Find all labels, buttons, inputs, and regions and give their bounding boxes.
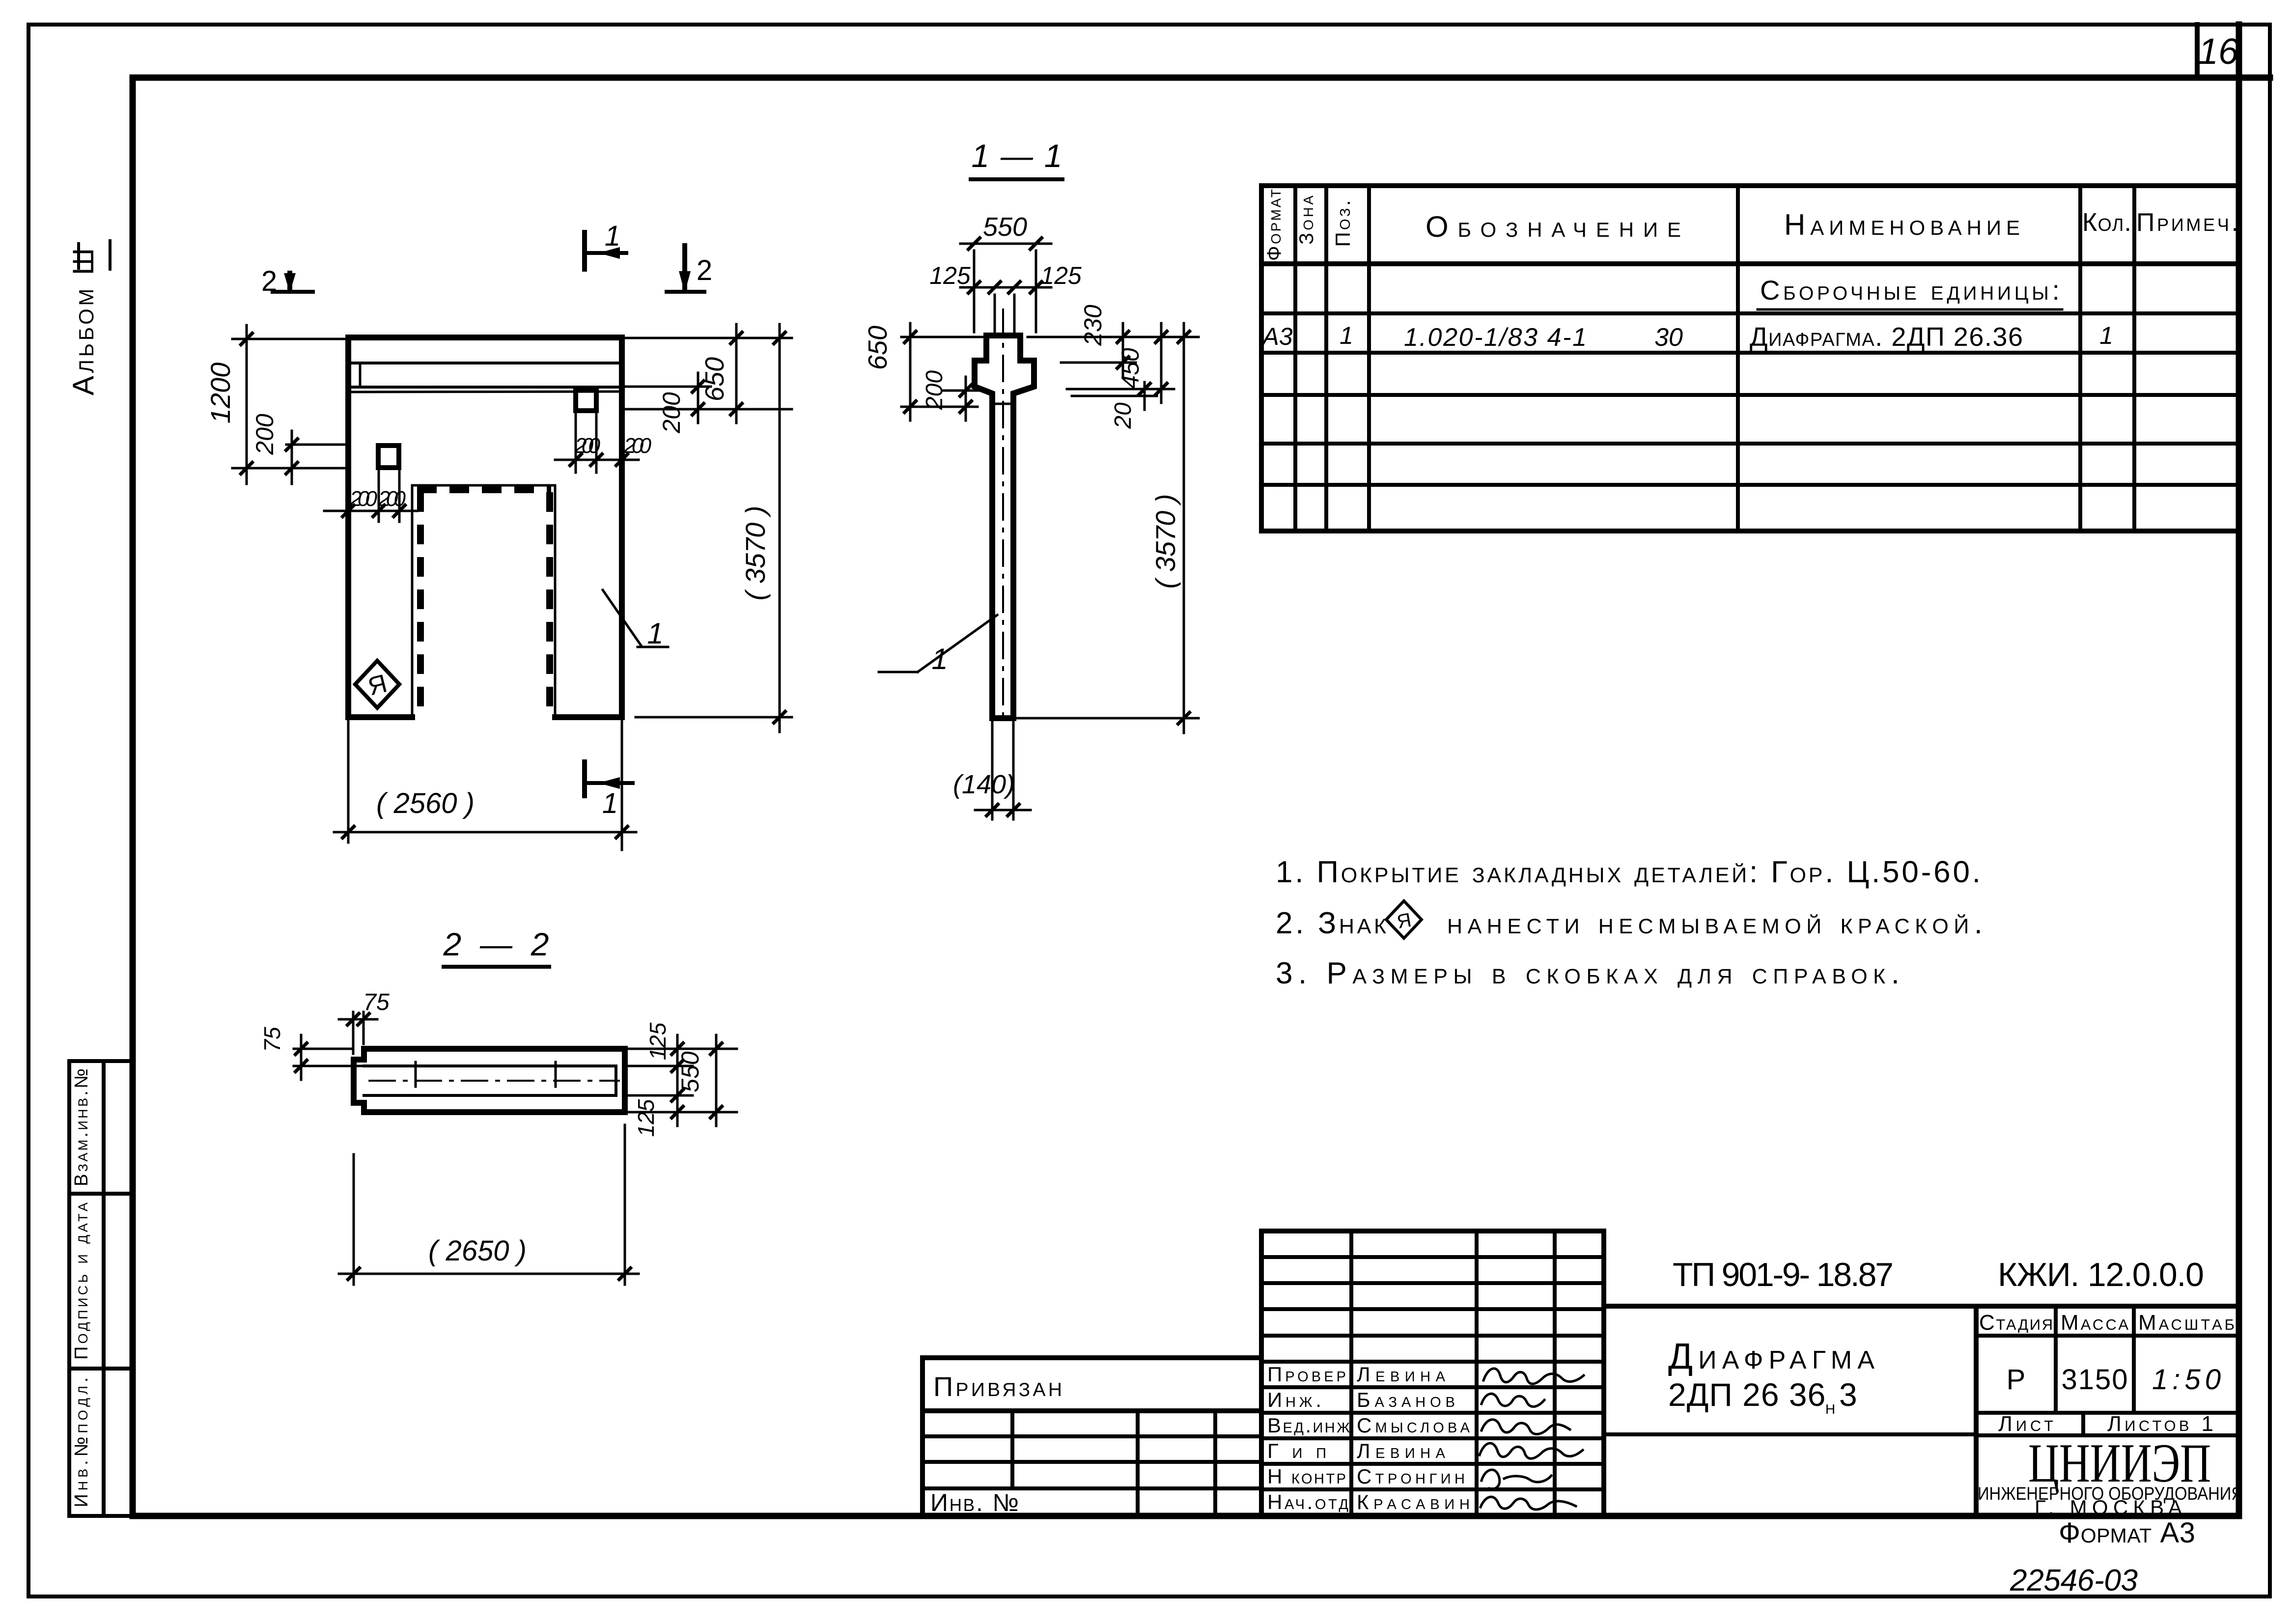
quality mark diamond — [355, 661, 399, 708]
svg-text:Сборочные единицы:: Сборочные единицы: — [1760, 275, 2060, 306]
svg-text:75: 75 — [259, 1027, 285, 1052]
spec table grid — [1261, 186, 2239, 531]
svg-text:Инж.: Инж. — [1267, 1388, 1321, 1411]
svg-text:Я: Я — [1395, 909, 1413, 933]
svg-text:А3: А3 — [1261, 323, 1292, 350]
svg-text:650: 650 — [700, 357, 729, 401]
signature squiggle Базанов — [1481, 1394, 1544, 1406]
section mark 1 bottom — [585, 762, 633, 819]
dimension 200 section — [922, 370, 982, 420]
svg-text:Наименование: Наименование — [1784, 208, 2020, 241]
dimension 450 — [1067, 323, 1174, 403]
svg-text:Стронгин: Стронгин — [1357, 1465, 1465, 1488]
svg-text:125: 125 — [1040, 262, 1082, 289]
dimension 550 — [960, 212, 1051, 332]
svg-text:Диафрагма: Диафрагма — [1668, 1336, 1874, 1376]
svg-text:200: 200 — [922, 370, 948, 410]
svg-text:2: 2 — [261, 265, 277, 297]
section 2-2 title — [443, 926, 550, 967]
svg-text:Красавин: Красавин — [1357, 1490, 1470, 1513]
dimension 200 200 right plate — [555, 414, 652, 473]
svg-text:Смыслова: Смыслова — [1357, 1414, 1470, 1437]
dimension 230 — [1028, 305, 1199, 376]
dimension (140) — [953, 721, 1031, 819]
svg-text:( 3570 ): ( 3570 ) — [1150, 494, 1181, 589]
section mark 2 right — [667, 246, 712, 293]
svg-text:Г и п: Г и п — [1267, 1439, 1326, 1462]
signature row names — [1357, 1363, 1470, 1513]
svg-text:( 2560 ): ( 2560 ) — [376, 787, 475, 819]
dimension 550 right — [676, 1035, 723, 1126]
svg-text:Листов 1: Листов 1 — [2107, 1412, 2213, 1436]
dimension 650 right — [622, 324, 792, 423]
svg-text:1 — 1: 1 — 1 — [972, 138, 1062, 174]
svg-text:125: 125 — [645, 1022, 671, 1060]
section 1-1 title — [971, 138, 1062, 179]
opening contour — [412, 485, 555, 717]
section mark 1 top — [585, 220, 626, 269]
svg-text:1. Покрытие закладных деталей:: 1. Покрытие закладных деталей: Гор. Ц.50… — [1276, 855, 1981, 889]
svg-text:Лист: Лист — [1998, 1412, 2053, 1436]
embedded plate right — [576, 388, 596, 411]
title block left sub-block grid — [922, 1358, 1261, 1516]
frame top right extension — [2239, 75, 2270, 81]
svg-text:1: 1 — [605, 220, 620, 252]
sheet number box divider — [2195, 25, 2200, 78]
svg-text:ТП 901-9- 18.87: ТП 901-9- 18.87 — [1673, 1256, 1894, 1293]
sheet number box right divider — [2236, 25, 2242, 78]
svg-text:Базанов: Базанов — [1357, 1388, 1455, 1411]
svg-text:нанести несмываемой краской.: нанести несмываемой краской. — [1447, 906, 1983, 940]
dimension (2560) bottom — [334, 720, 636, 850]
svg-text:3: 3 — [1839, 1376, 1857, 1413]
album numeral overline — [77, 244, 80, 268]
svg-text:( 3570 ): ( 3570 ) — [740, 506, 771, 601]
svg-text:Р: Р — [2007, 1364, 2026, 1396]
signature squiggle Стронгин — [1481, 1470, 1551, 1489]
dimension 200 right upper — [622, 373, 711, 434]
svg-text:Провер: Провер — [1267, 1363, 1346, 1386]
dimension 200 200 lower-left plate — [324, 471, 418, 522]
svg-text:н: н — [1825, 1397, 1835, 1418]
svg-text:16: 16 — [2198, 31, 2239, 72]
title block signature table grid — [1261, 1231, 1604, 1516]
dimension 125 right — [1003, 262, 1082, 332]
svg-text:1200: 1200 — [205, 363, 236, 424]
svg-text:230: 230 — [1079, 305, 1107, 346]
section mark 2 left — [261, 265, 313, 297]
spec row designation 1.020-1/83 4-1 30 — [1404, 323, 1683, 352]
svg-text:2. Знак: 2. Знак — [1276, 906, 1386, 940]
svg-text:200: 200 — [574, 434, 601, 458]
signature squiggle Левина — [1483, 1369, 1584, 1384]
dimension 650 section — [863, 323, 986, 420]
svg-text:550: 550 — [983, 212, 1027, 242]
svg-text:1: 1 — [931, 643, 948, 675]
svg-text:125: 125 — [633, 1099, 659, 1137]
svg-text:1: 1 — [1340, 322, 1353, 349]
svg-text:Подпись и дата: Подпись и дата — [71, 1203, 92, 1360]
embedded plate left — [378, 446, 399, 468]
note 2 mark diamond — [1386, 901, 1422, 938]
svg-text:1: 1 — [602, 787, 618, 819]
svg-text:Инв. №: Инв. № — [930, 1489, 1019, 1516]
svg-text:Взам.инв.№: Взам.инв.№ — [71, 1068, 92, 1186]
leader 1 front view — [603, 590, 668, 650]
leader 1 section 1-1 — [879, 615, 997, 675]
svg-text:Масса: Масса — [2061, 1311, 2128, 1335]
svg-text:20: 20 — [1110, 402, 1136, 429]
svg-text:Кол.: Кол. — [2082, 208, 2131, 237]
svg-text:200: 200 — [658, 392, 685, 434]
svg-text:Обозначение: Обозначение — [1426, 210, 1681, 243]
svg-text:Н контр: Н контр — [1267, 1465, 1346, 1488]
signature squiggle Красавин — [1481, 1497, 1576, 1510]
title block right grid — [1604, 1306, 2239, 1516]
svg-text:3. Размеры в скобках для справ: 3. Размеры в скобках для справок. — [1276, 956, 1900, 990]
svg-text:22546-03: 22546-03 — [2010, 1564, 2138, 1597]
svg-text:Поз.: Поз. — [1331, 200, 1354, 247]
svg-text:2: 2 — [697, 254, 712, 286]
svg-text:КЖИ. 12.0.0.0: КЖИ. 12.0.0.0 — [1998, 1256, 2204, 1293]
signature squiggle Левина ГИП — [1480, 1443, 1583, 1458]
dimension 75 left — [259, 1027, 362, 1080]
album numeral underline — [109, 241, 112, 269]
svg-text:30: 30 — [1654, 323, 1683, 352]
svg-text:Примеч.: Примеч. — [2136, 208, 2238, 237]
dimension 125 bottom right — [628, 1082, 737, 1137]
dimension (2650) bottom — [339, 1125, 639, 1285]
svg-text:1.020-1/83 4-1: 1.020-1/83 4-1 — [1404, 323, 1587, 352]
opening hidden dashed contour — [417, 490, 551, 715]
svg-text:200: 200 — [378, 487, 406, 511]
svg-text:1: 1 — [2099, 322, 2113, 349]
section 2-2 inner right edge — [615, 1066, 617, 1095]
svg-text:650: 650 — [863, 326, 893, 370]
svg-text:Формат: Формат — [1263, 189, 1285, 261]
left margin stamp table — [69, 1061, 133, 1516]
svg-text:Инв.№подл.: Инв.№подл. — [71, 1377, 92, 1508]
signature squiggle Смыслова — [1481, 1420, 1570, 1434]
dimension (3570) right — [636, 324, 792, 732]
dimension 20 — [1072, 382, 1157, 429]
svg-text:2 — 2: 2 — 2 — [443, 926, 549, 962]
section 2-2 centerline — [368, 1080, 620, 1082]
signature row labels — [1267, 1363, 1350, 1513]
section 2-2 anchor tick right — [555, 1062, 557, 1087]
svg-text:200: 200 — [623, 434, 652, 458]
section 1-1 stem joint line — [992, 403, 1013, 405]
svg-text:3150: 3150 — [2062, 1364, 2128, 1396]
svg-text:( 2650 ): ( 2650 ) — [428, 1235, 527, 1267]
svg-text:Нач.отд: Нач.отд — [1267, 1490, 1348, 1513]
svg-text:1: 1 — [647, 617, 663, 650]
spec row Сборочные единицы — [1758, 275, 2062, 309]
svg-text:ИНЖЕНЕРНОГО ОБОРУДОВАНИЯ: ИНЖЕНЕРНОГО ОБОРУДОВАНИЯ — [1978, 1484, 2243, 1504]
svg-text:75: 75 — [363, 989, 390, 1015]
svg-text:Стадия: Стадия — [1979, 1311, 2053, 1335]
section 1-1 element outline — [975, 336, 1034, 718]
svg-text:Масштаб: Масштаб — [2138, 1311, 2235, 1335]
svg-text:450: 450 — [1117, 348, 1144, 389]
svg-text:Вед.инж: Вед.инж — [1267, 1414, 1350, 1437]
svg-text:Привязан: Привязан — [933, 1371, 1062, 1402]
svg-text:125: 125 — [929, 262, 971, 289]
section 2-2 anchor tick left — [415, 1062, 417, 1087]
svg-text:Альбом Ш: Альбом Ш — [67, 248, 100, 395]
section 1-1 centerline — [1002, 308, 1004, 722]
section 2-2 element outline — [354, 1049, 625, 1112]
svg-text:200: 200 — [349, 487, 378, 511]
dimension (3570) section — [1013, 323, 1199, 733]
panel outline — [348, 337, 622, 717]
svg-text:550: 550 — [676, 1051, 704, 1092]
dimension 1200 left — [205, 325, 348, 484]
panel top strip lines — [348, 363, 622, 392]
section 2-2 inner line lower — [364, 1094, 616, 1097]
section 2-2 inner line upper — [364, 1064, 616, 1067]
svg-text:200: 200 — [251, 414, 279, 455]
svg-text:1:50: 1:50 — [2152, 1364, 2221, 1396]
dimension 200 left — [251, 414, 346, 484]
dimension 125 left — [929, 262, 1007, 332]
svg-text:2ДП 26 36: 2ДП 26 36 — [1668, 1376, 1826, 1413]
svg-text:(140): (140) — [953, 770, 1015, 799]
svg-text:Зона: Зона — [1296, 196, 1317, 245]
dimension 125 top right — [628, 1022, 737, 1080]
svg-text:Формат А3: Формат А3 — [2059, 1517, 2195, 1549]
svg-text:Левина: Левина — [1357, 1363, 1446, 1386]
dimension 75 top — [339, 989, 390, 1054]
svg-text:Левина: Левина — [1357, 1439, 1446, 1462]
svg-text:Диафрагма. 2ДП 26.36: Диафрагма. 2ДП 26.36 — [1750, 322, 2023, 352]
